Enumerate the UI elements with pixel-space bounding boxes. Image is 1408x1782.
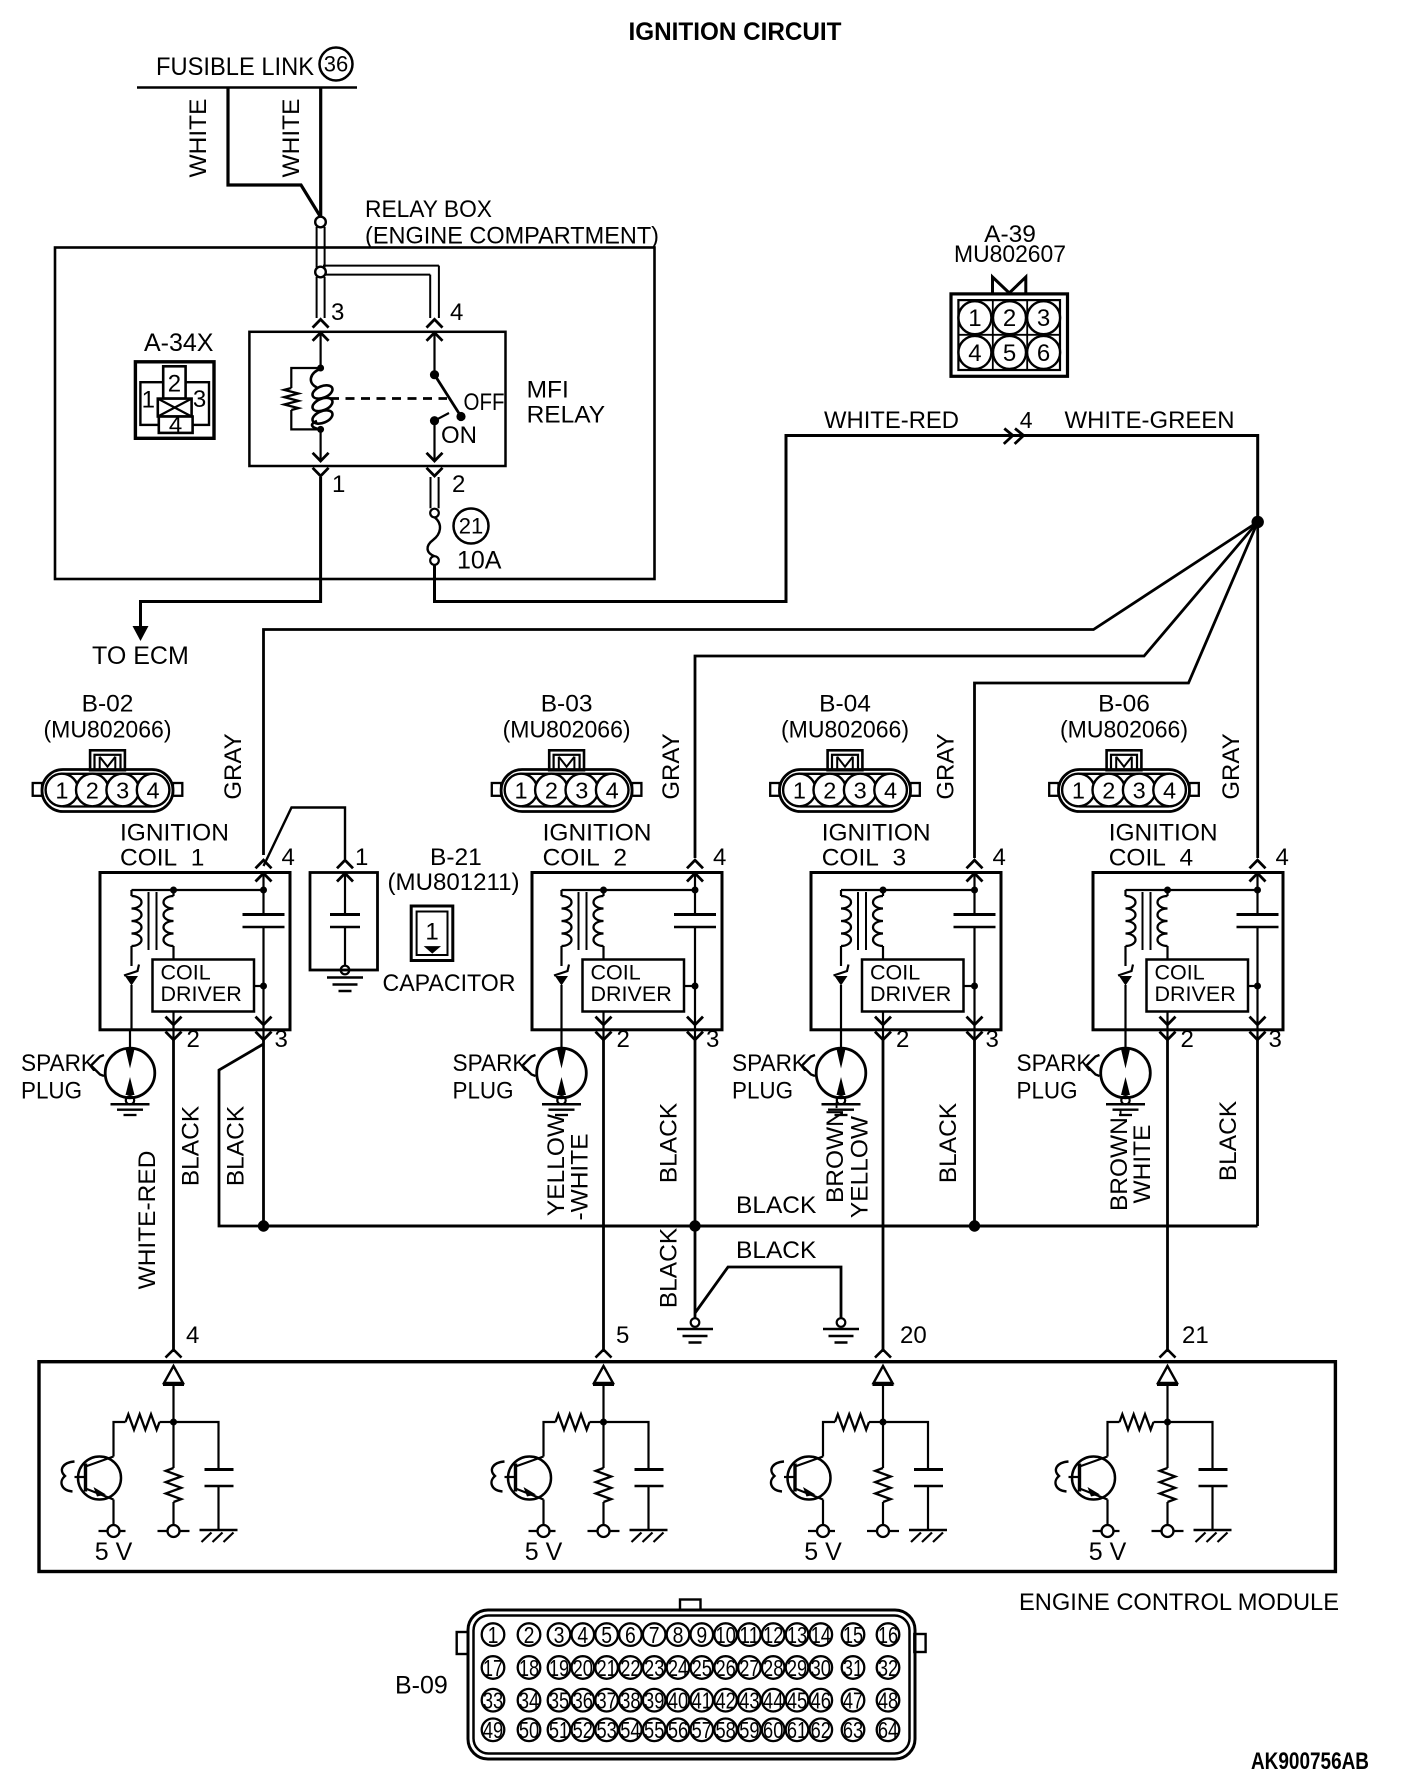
svg-text:6: 6 (1037, 340, 1050, 367)
relay box (engine compartment) outline (55, 248, 655, 580)
connector terminal circle at branch (315, 267, 326, 278)
ground hatch (1194, 1530, 1232, 1542)
capacitor C2 (604, 1422, 664, 1530)
ECM pin 5 (596, 1322, 630, 1358)
relay switch common contact (430, 333, 439, 379)
resistor R3b (875, 1422, 890, 1525)
svg-text:5 V: 5 V (525, 1538, 563, 1566)
zener diode coil 3 (834, 965, 849, 1030)
wire WHITE left from fusible link (228, 88, 320, 217)
svg-text:WHITE: WHITE (1129, 1125, 1156, 1204)
coil driver U1 (153, 960, 264, 1012)
connector B-21 icon (411, 906, 453, 961)
zener diode coil 4 (1118, 965, 1133, 1030)
svg-text:TO ECM: TO ECM (92, 642, 189, 670)
svg-text:3: 3 (275, 1026, 288, 1053)
svg-text:2: 2 (1181, 1026, 1194, 1053)
ECM input pin symbol 4 (1157, 1366, 1178, 1422)
svg-text:2: 2 (452, 471, 465, 498)
svg-text:4: 4 (993, 844, 1006, 871)
coil 2 pin 2 (596, 1017, 630, 1053)
svg-text:44: 44 (763, 1688, 783, 1714)
label GRAY coil 1 (220, 733, 247, 799)
svg-text:BLACK: BLACK (656, 1227, 683, 1308)
terminal 5V (529, 1500, 556, 1538)
relay internal resistor (284, 368, 320, 429)
svg-text:B-02: B-02 (82, 691, 134, 718)
svg-text:4: 4 (577, 1622, 588, 1648)
ground under capacitor (327, 978, 363, 992)
capacitor C4 (1168, 1422, 1228, 1530)
svg-text:37: 37 (596, 1688, 616, 1714)
label TO ECM (92, 642, 189, 670)
svg-text:DRIVER: DRIVER (591, 982, 672, 1006)
svg-text:8: 8 (673, 1622, 684, 1648)
svg-text:4: 4 (169, 412, 182, 439)
svg-text:(MU802066): (MU802066) (44, 717, 172, 744)
svg-text:4: 4 (884, 778, 897, 804)
label BLACK coil3 (935, 1102, 962, 1183)
transistor Q2 (491, 1457, 551, 1500)
resistor R1b (166, 1422, 181, 1525)
svg-text:64: 64 (878, 1717, 898, 1743)
fuse 21 element (428, 517, 440, 565)
ignition coil 3 box (811, 873, 1001, 1030)
svg-text:2: 2 (1003, 305, 1016, 332)
wire BLACK coil2 pin3 to bus (694, 1040, 697, 1226)
junction bus left (258, 1220, 269, 1231)
svg-text:36: 36 (573, 1688, 593, 1714)
wire to ground 2 (695, 1267, 845, 1327)
label IGNITION COIL 2 (543, 820, 652, 872)
wire GRAY to ignition coil 1 pin 4 (264, 522, 1258, 855)
label SPARK PLUG 4 (1017, 1050, 1093, 1105)
ground hatch (909, 1530, 947, 1542)
svg-text:11: 11 (739, 1622, 759, 1648)
connector pipe below relay pin 2 (430, 477, 439, 517)
svg-text:36: 36 (324, 52, 348, 77)
svg-text:25: 25 (692, 1655, 712, 1681)
pipe wire to relay pin 3 upper (317, 227, 325, 267)
transistor Q1 (61, 1457, 121, 1500)
ground hatch (630, 1530, 668, 1542)
svg-text:-WHITE: -WHITE (567, 1133, 594, 1220)
wire WHITE right from fusible link (319, 88, 322, 217)
label WHITE-GREEN (1065, 407, 1235, 434)
svg-text:BLACK: BLACK (736, 1192, 817, 1219)
svg-text:(MU801211): (MU801211) (388, 869, 520, 896)
svg-text:B-06: B-06 (1098, 691, 1150, 718)
wire coil to pin 1 (320, 429, 322, 461)
svg-text:WHITE-GREEN: WHITE-GREEN (1065, 407, 1235, 434)
coil driver U4 (1147, 960, 1258, 1012)
ECM pin 21 (1160, 1322, 1209, 1358)
label BLACK coil4 (1215, 1100, 1242, 1181)
ground bus BLACK (264, 1225, 1258, 1228)
coil 3 pin 2 (875, 1017, 909, 1053)
transformer T3 (841, 890, 883, 966)
svg-text:22: 22 (620, 1655, 640, 1681)
svg-text:13: 13 (787, 1622, 807, 1648)
svg-text:GRAY: GRAY (1218, 733, 1245, 799)
capacitor inside coil 3 (954, 915, 996, 928)
fuse number 21 circle (454, 509, 489, 544)
terminal 5V (1093, 1500, 1120, 1538)
coil 4 pin 2 (1160, 1017, 1194, 1053)
label B-21 (MU801211) (388, 844, 520, 896)
wire BLACK coil4 pin3 to bus (1256, 1040, 1259, 1226)
svg-text:35: 35 (549, 1688, 569, 1714)
label BLACK ground wire 2 (736, 1237, 817, 1264)
svg-text:39: 39 (644, 1688, 664, 1714)
relay box label (365, 196, 659, 250)
terminal mid (588, 1525, 620, 1537)
svg-text:5 V: 5 V (1089, 1538, 1127, 1566)
label SPARK PLUG 1 (21, 1050, 97, 1105)
label BLACK coil1 b (223, 1105, 250, 1186)
ECM input pin symbol 2 (593, 1366, 614, 1422)
svg-text:1: 1 (332, 471, 345, 498)
svg-text:14: 14 (811, 1622, 831, 1648)
svg-text:15: 15 (843, 1622, 863, 1648)
distribution junction node (1252, 516, 1264, 528)
svg-text:5: 5 (601, 1622, 612, 1648)
svg-text:5 V: 5 V (95, 1538, 133, 1566)
relay switch arm to OFF (435, 375, 466, 421)
ground hatch (200, 1530, 238, 1542)
resistor R1a (126, 1414, 174, 1429)
svg-text:WHITE-RED: WHITE-RED (134, 1151, 161, 1290)
svg-text:3: 3 (193, 386, 206, 413)
svg-text:BLACK: BLACK (1215, 1100, 1242, 1181)
junction (170, 1419, 177, 1426)
svg-text:SPARK: SPARK (1017, 1050, 1093, 1077)
junction (600, 1419, 607, 1426)
svg-text:3: 3 (1269, 1026, 1282, 1053)
svg-text:4: 4 (1163, 778, 1176, 804)
label OFF (464, 389, 505, 416)
svg-text:COIL: COIL (1155, 961, 1205, 985)
junction bus mid-right (969, 1220, 980, 1231)
label GRAY coil 3 (933, 733, 960, 799)
svg-text:1: 1 (968, 305, 981, 332)
capacitor inside coil 4 (1237, 915, 1279, 928)
resistor R4a (1120, 1414, 1168, 1429)
coil 3 pin 3 (967, 1017, 999, 1053)
svg-text:5: 5 (616, 1322, 629, 1349)
svg-text:59: 59 (739, 1717, 759, 1743)
zener diode coil 1 (124, 965, 139, 1030)
svg-text:IGNITION CIRCUIT: IGNITION CIRCUIT (629, 18, 842, 46)
coil 3 pin 4 (967, 844, 1006, 882)
connector A-34X (135, 329, 214, 439)
svg-text:3: 3 (1037, 305, 1050, 332)
wire pin3 to relay coil (320, 333, 322, 368)
label 5 V 2 (525, 1538, 563, 1566)
ECM input pin symbol 1 (163, 1366, 184, 1422)
svg-text:4: 4 (606, 778, 619, 804)
svg-text:53: 53 (596, 1717, 616, 1743)
label SPARK PLUG 3 (732, 1050, 808, 1105)
svg-text:57: 57 (692, 1717, 712, 1743)
svg-text:4: 4 (147, 778, 160, 804)
svg-text:5: 5 (1003, 340, 1016, 367)
svg-text:40: 40 (668, 1688, 688, 1714)
svg-text:3: 3 (575, 778, 588, 804)
connector A-39 (951, 221, 1068, 376)
svg-text:20: 20 (900, 1322, 927, 1349)
fusible link bus bar (137, 86, 357, 89)
coil 4 pin 4 (1250, 844, 1289, 882)
connector B-06 (MU802066) (1049, 691, 1199, 812)
svg-text:60: 60 (763, 1717, 783, 1743)
capacitor inside coil 2 (674, 915, 716, 928)
svg-text:2: 2 (524, 1622, 535, 1648)
svg-text:26: 26 (715, 1655, 735, 1681)
connector B-09 (457, 1600, 926, 1760)
terminal mid (1152, 1525, 1184, 1537)
svg-text:24: 24 (668, 1655, 688, 1681)
svg-text:16: 16 (878, 1622, 898, 1648)
svg-text:ON: ON (441, 422, 477, 449)
spark plug 2 (523, 1030, 587, 1115)
capacitor C3 (883, 1422, 943, 1530)
coil 4 pin3 wire inside box (1254, 927, 1261, 1040)
label BROWN-WHITE (1106, 1109, 1156, 1211)
svg-text:3: 3 (986, 1026, 999, 1053)
svg-text:COIL 3: COIL 3 (822, 845, 906, 872)
svg-text:3: 3 (554, 1622, 565, 1648)
coil 2 pin 4 (687, 844, 726, 882)
ECM input pin symbol 3 (873, 1366, 894, 1422)
svg-text:PLUG: PLUG (453, 1078, 514, 1105)
label ENGINE CONTROL MODULE (1019, 1589, 1339, 1616)
svg-text:COIL: COIL (591, 961, 641, 985)
svg-text:OFF: OFF (464, 389, 505, 416)
svg-text:4: 4 (282, 844, 295, 871)
svg-text:43: 43 (739, 1688, 759, 1714)
svg-text:29: 29 (787, 1655, 807, 1681)
svg-text:IGNITION: IGNITION (543, 820, 652, 847)
label ON (441, 422, 477, 449)
svg-text:4: 4 (968, 340, 981, 367)
terminal mid (158, 1525, 190, 1537)
connector B-02 (MU802066) (33, 691, 183, 812)
svg-text:FUSIBLE LINK: FUSIBLE LINK (156, 53, 314, 81)
spark plug 3 (802, 1030, 866, 1115)
transistor Q3 (771, 1457, 831, 1500)
pipe wire branch to relay pin 4 (323, 266, 439, 318)
svg-text:GRAY: GRAY (933, 733, 960, 799)
svg-text:(MU802066): (MU802066) (781, 717, 909, 744)
junction (1164, 1419, 1171, 1426)
svg-text:55: 55 (644, 1717, 664, 1743)
MFI relay label (527, 377, 606, 429)
svg-text:MU802607: MU802607 (954, 241, 1066, 268)
svg-text:17: 17 (483, 1655, 503, 1681)
junction (317, 426, 324, 433)
transformer T1 (132, 890, 174, 966)
label BLACK bus (736, 1192, 817, 1219)
coil 4 pin2 wire (1166, 1012, 1168, 1041)
wire coil1 pin4 to capacitor B-21 (264, 808, 346, 867)
svg-text:SPARK: SPARK (732, 1050, 808, 1077)
svg-text:4: 4 (450, 299, 463, 326)
svg-text:30: 30 (811, 1655, 831, 1681)
svg-text:31: 31 (843, 1655, 863, 1681)
capacitor C1 element (330, 873, 360, 975)
label B-09 (395, 1672, 448, 1700)
svg-text:BLACK: BLACK (223, 1105, 250, 1186)
svg-text:23: 23 (644, 1655, 664, 1681)
transformer T2 (562, 890, 604, 966)
coil 1 pin 3 (256, 1017, 288, 1053)
label YELLOW-WHITE (543, 1113, 594, 1220)
coil 4 pin 3 (1250, 1017, 1282, 1053)
wire GRAY to ignition coil 2 pin 4 (695, 522, 1258, 858)
coil 3 pin2 wire (882, 1012, 884, 1041)
svg-text:6: 6 (625, 1622, 636, 1648)
svg-text:21: 21 (596, 1655, 616, 1681)
label GRAY coil 2 (658, 733, 685, 799)
coil 2 top wire (562, 873, 699, 915)
ground 1 (677, 1329, 713, 1343)
ignition coil 1 box (100, 873, 290, 1030)
transformer T4 (1126, 890, 1168, 966)
svg-text:54: 54 (620, 1717, 640, 1743)
junction bus mid-left (689, 1220, 700, 1231)
coil 1 pin 4 (256, 844, 295, 882)
label WHITE-RED vertical (134, 1151, 161, 1290)
relay pin 1 (313, 453, 346, 498)
wire BROWN-YELLOW coil3 pin2 to ECM pin 20 (882, 1040, 885, 1352)
label 5 V 3 (804, 1538, 842, 1566)
resistor R2b (596, 1422, 611, 1525)
relay linkage dashed line (330, 397, 447, 400)
wire to transistor collector (823, 1422, 835, 1457)
svg-text:3: 3 (116, 778, 129, 804)
svg-text:DRIVER: DRIVER (870, 982, 951, 1006)
svg-text:COIL 2: COIL 2 (543, 845, 627, 872)
coil driver U3 (862, 960, 975, 1012)
ignition coil 4 box (1093, 873, 1283, 1030)
svg-text:WHITE: WHITE (278, 99, 305, 178)
capacitor C1 box (310, 873, 378, 971)
coil 2 pin 3 (687, 1017, 719, 1053)
wire bus to ground 1 (691, 1226, 700, 1327)
svg-text:PLUG: PLUG (21, 1078, 82, 1105)
zener diode coil 2 (554, 965, 569, 1030)
svg-text:GRAY: GRAY (658, 733, 685, 799)
wire relay pin 1 to ECM arrow (133, 477, 321, 641)
relay pin 4 (427, 299, 464, 341)
svg-text:COIL 1: COIL 1 (120, 845, 204, 872)
svg-text:GRAY: GRAY (220, 733, 247, 799)
label SPARK PLUG 2 (453, 1050, 529, 1105)
svg-text:1: 1 (355, 844, 368, 871)
svg-text:51: 51 (549, 1717, 569, 1743)
wire to transistor collector (114, 1422, 126, 1457)
label 10A (457, 547, 502, 575)
svg-text:2: 2 (617, 1026, 630, 1053)
svg-text:2: 2 (1102, 778, 1115, 804)
svg-text:DRIVER: DRIVER (1155, 982, 1236, 1006)
svg-text:34: 34 (519, 1688, 539, 1714)
svg-text:3: 3 (854, 778, 867, 804)
svg-text:21: 21 (459, 514, 483, 539)
inline connector 4 chevrons (1004, 429, 1024, 444)
svg-text:20: 20 (573, 1655, 593, 1681)
capacitor C1 (174, 1422, 234, 1530)
label IGNITION COIL 3 (822, 820, 931, 872)
svg-text:YELLOW: YELLOW (847, 1115, 874, 1218)
svg-text:19: 19 (549, 1655, 569, 1681)
svg-text:SPARK: SPARK (21, 1050, 97, 1077)
svg-text:COIL 4: COIL 4 (1109, 845, 1193, 872)
svg-text:COIL: COIL (870, 961, 920, 985)
coil 3 pin3 wire inside box (971, 927, 978, 1040)
svg-text:RELAY: RELAY (527, 401, 606, 428)
svg-text:CAPACITOR: CAPACITOR (383, 970, 516, 997)
svg-text:3: 3 (706, 1026, 719, 1053)
fusible link 36 circle (320, 48, 353, 81)
label WHITE right (278, 99, 305, 178)
svg-text:3: 3 (1133, 778, 1146, 804)
svg-text:7: 7 (649, 1622, 660, 1648)
coil 1 pin 2 (166, 1017, 200, 1053)
svg-text:1: 1 (488, 1622, 499, 1648)
svg-text:10: 10 (715, 1622, 735, 1648)
svg-text:IGNITION: IGNITION (822, 820, 931, 847)
connector B-03 (MU802066) (492, 691, 642, 812)
svg-text:33: 33 (483, 1688, 503, 1714)
label WHITE-RED (824, 407, 959, 434)
junction (880, 1419, 887, 1426)
coil 4 top wire (1126, 873, 1262, 915)
svg-text:IGNITION: IGNITION (120, 820, 229, 847)
svg-text:AK900756AB: AK900756AB (1251, 1748, 1369, 1775)
capacitor pin 1 (337, 844, 368, 882)
svg-text:WHITE-RED: WHITE-RED (824, 407, 959, 434)
svg-text:(MU802066): (MU802066) (503, 717, 631, 744)
svg-text:32: 32 (878, 1655, 898, 1681)
wire BLACK coil1 pin3 to bus (262, 1040, 265, 1226)
svg-text:(ENGINE COMPARTMENT): (ENGINE COMPARTMENT) (365, 223, 659, 250)
label IGNITION COIL 1 (120, 820, 229, 872)
relay pin 3 (313, 299, 345, 341)
svg-text:61: 61 (787, 1717, 807, 1743)
B-09 pins 1-64 (482, 1622, 900, 1743)
wire GRAY to ignition coil 4 pin 4 (1256, 522, 1259, 858)
svg-text:PLUG: PLUG (732, 1078, 793, 1105)
svg-text:42: 42 (715, 1688, 735, 1714)
svg-text:2: 2 (187, 1026, 200, 1053)
svg-text:B-04: B-04 (819, 691, 871, 718)
svg-text:52: 52 (573, 1717, 593, 1743)
svg-text:21: 21 (1182, 1322, 1209, 1349)
label pin 4 inline (1020, 407, 1033, 433)
svg-text:SPARK: SPARK (453, 1050, 529, 1077)
svg-text:62: 62 (811, 1717, 831, 1743)
svg-text:48: 48 (878, 1688, 898, 1714)
ground 2 (823, 1329, 859, 1343)
wire YELLOW-WHITE coil2 pin2 to ECM pin 5 (602, 1040, 605, 1352)
svg-text:9: 9 (696, 1622, 707, 1648)
svg-text:12: 12 (763, 1622, 783, 1648)
resistor R3a (835, 1414, 883, 1429)
svg-text:BLACK: BLACK (736, 1237, 817, 1264)
pipe wire to relay pin 3 lower (317, 277, 325, 318)
